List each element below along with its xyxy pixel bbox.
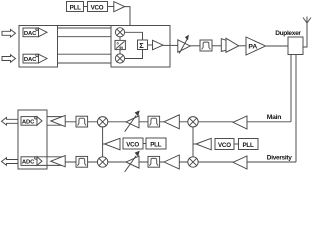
- mixer M1: [115, 28, 124, 37]
- VGA A5: [125, 110, 140, 131]
- svg-text:Diversity: Diversity: [267, 155, 292, 162]
- svg-text:PLL: PLL: [150, 142, 162, 149]
- RX digital box: [18, 110, 47, 169]
- wire: [84, 6, 88, 8]
- svg-text:DAC: DAC: [24, 57, 37, 63]
- svg-text:PLL: PLL: [243, 142, 255, 149]
- mixer M3: [97, 117, 107, 127]
- amp A10: [51, 156, 65, 167]
- wire: LO1 vertical: [192, 122, 194, 162]
- PLL U1: [67, 2, 84, 12]
- antenna: [303, 17, 311, 48]
- LNA A13: [233, 156, 247, 169]
- wire: LO2 vertical: [102, 122, 104, 162]
- svg-text:VCO: VCO: [218, 142, 231, 149]
- phase splitter 0/90: [115, 40, 125, 50]
- wire: [103, 143, 105, 145]
- mixer M4: [188, 117, 198, 127]
- VGA A11: [125, 151, 140, 172]
- filter F4: [76, 156, 88, 167]
- duplexer U3: [288, 37, 303, 55]
- wire: [163, 44, 178, 46]
- wire: [148, 44, 153, 46]
- filter F3: [148, 116, 160, 127]
- wire: [193, 143, 196, 145]
- svg-text:Duplexer: Duplexer: [275, 30, 301, 37]
- amp A12: [164, 155, 179, 169]
- output block arrow 2: [2, 158, 19, 166]
- amp A9 (LO1 buffer): [196, 138, 211, 150]
- wire: duplexer to diversity: [295, 55, 297, 163]
- ADC A/D 2: [21, 157, 42, 166]
- ADC A/D 1: [21, 117, 42, 126]
- amp A0 (LO buffer): [114, 2, 125, 12]
- wire: box link top: [58, 25, 112, 27]
- PLL U5: [146, 138, 166, 149]
- wire: duplexer to main: [290, 55, 292, 122]
- wire: [239, 45, 246, 47]
- mixer M2: [115, 54, 124, 63]
- wire: mixer1 to summer: [125, 32, 143, 40]
- summer S1: [138, 40, 148, 50]
- filter F2: [76, 116, 88, 127]
- amp A4: [51, 115, 65, 126]
- svg-text:VCO: VCO: [126, 142, 139, 149]
- filter F1: [200, 40, 212, 51]
- svg-text:Main: Main: [267, 114, 281, 121]
- input block arrow 2: [2, 55, 16, 63]
- output block arrow 1: [2, 118, 19, 126]
- VCO U2: [88, 2, 108, 12]
- wire: ADC2 rails: [37, 157, 65, 166]
- DAC D1: [23, 28, 47, 37]
- wire: LO feed down: [125, 7, 130, 46]
- amp A6: [164, 115, 179, 129]
- wire: main row: [65, 121, 291, 123]
- VCO U6: [215, 139, 234, 150]
- amp A8 (LO2 buffer): [105, 138, 121, 150]
- wire: diversity row: [65, 161, 296, 163]
- modulator box: [111, 26, 170, 68]
- wire: [212, 45, 221, 47]
- wire: ADC1 rails: [37, 117, 65, 126]
- svg-text:ADC: ADC: [22, 119, 35, 125]
- svg-text:PLL: PLL: [70, 4, 82, 11]
- svg-text:90: 90: [119, 46, 123, 50]
- input block arrow 1: [2, 30, 16, 38]
- driver A3 (two stage): [221, 38, 238, 52]
- wire: [266, 45, 289, 47]
- wire: mixer2 to summer: [125, 50, 143, 59]
- amp A1: [153, 40, 164, 50]
- wire: phase splitter stubs: [119, 37, 121, 54]
- PLL U7: [239, 139, 259, 150]
- wire: [190, 45, 200, 47]
- filter F5: [148, 156, 160, 167]
- wire: [143, 143, 146, 145]
- LNA A7: [233, 116, 247, 129]
- wire: [234, 143, 239, 145]
- svg-text:PA: PA: [248, 44, 257, 51]
- wire: DAC2 differential rails: [39, 54, 121, 63]
- mixer M6: [188, 157, 198, 167]
- svg-text:DAC: DAC: [24, 31, 37, 37]
- VGA A2 (variable attenuator): [178, 35, 190, 54]
- svg-text:VCO: VCO: [91, 4, 104, 11]
- DAC D2: [23, 54, 47, 63]
- svg-text:Σ: Σ: [139, 41, 144, 50]
- VCO U4: [123, 138, 143, 149]
- wire: [108, 6, 114, 8]
- PA Q1: [246, 37, 266, 55]
- mixer M5: [97, 157, 107, 167]
- wire: DAC1 differential rails: [39, 28, 121, 37]
- TX digital box: [19, 26, 58, 68]
- svg-text:ADC: ADC: [22, 160, 35, 166]
